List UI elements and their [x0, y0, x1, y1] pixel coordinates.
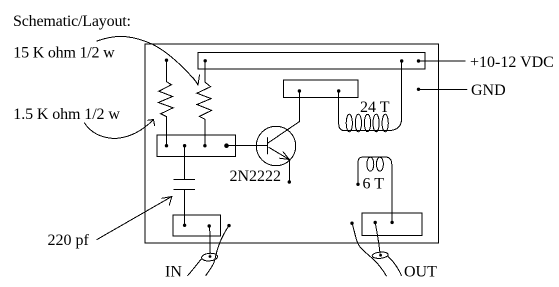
- svg-text:6 T: 6 T: [363, 176, 385, 193]
- svg-text:+10-12 VDC: +10-12 VDC: [470, 54, 554, 71]
- svg-text:IN: IN: [165, 264, 182, 281]
- svg-text:GND: GND: [471, 82, 506, 99]
- svg-text:15 K ohm 1/2 w: 15 K ohm 1/2 w: [13, 44, 115, 61]
- svg-text:24 T: 24 T: [360, 99, 390, 116]
- svg-text:220 pf: 220 pf: [48, 232, 90, 249]
- svg-text:OUT: OUT: [404, 264, 437, 281]
- svg-text:2N2222: 2N2222: [230, 168, 282, 185]
- svg-text:Schematic/Layout:: Schematic/Layout:: [13, 13, 131, 30]
- svg-text:1.5 K ohm 1/2 w: 1.5 K ohm 1/2 w: [13, 106, 120, 123]
